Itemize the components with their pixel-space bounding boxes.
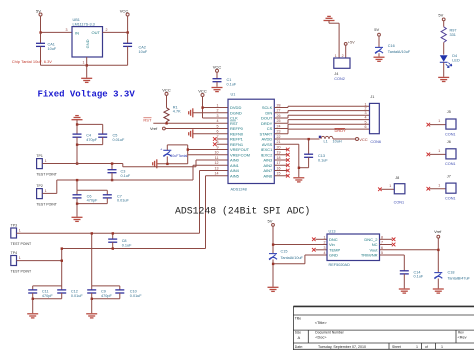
no-connect X AIN7 xyxy=(274,169,289,173)
U13 left pin names xyxy=(329,237,340,258)
wire C9 feed drop xyxy=(91,233,93,286)
capacitor C2 tantal xyxy=(160,145,188,164)
svg-text:AIN7: AIN7 xyxy=(263,168,273,173)
U1 right pin numbers xyxy=(277,103,281,175)
svg-text:VCC: VCC xyxy=(359,137,368,142)
svg-text:Vref: Vref xyxy=(434,229,442,234)
svg-text:IEXC1: IEXC1 xyxy=(261,147,273,152)
svg-text:LED: LED xyxy=(452,59,460,63)
wire ground rail xyxy=(41,64,128,66)
svg-text:Document Number: Document Number xyxy=(315,330,344,334)
svg-text:Title: Title xyxy=(295,316,301,320)
connector J6 CON1 xyxy=(427,140,457,166)
svg-text:5: 5 xyxy=(365,120,367,124)
svg-text:Rev: Rev xyxy=(458,330,464,334)
svg-text:17: 17 xyxy=(277,161,281,165)
wire VCC down xyxy=(127,16,129,32)
wire SCLK to J1 xyxy=(274,106,369,107)
power VCC (DVDD/CLK) xyxy=(198,89,207,97)
svg-text:470pF: 470pF xyxy=(101,294,112,298)
wire regulator GND pin xyxy=(86,57,88,65)
svg-text:5V: 5V xyxy=(268,218,273,223)
svg-text:0.1uF: 0.1uF xyxy=(121,174,131,178)
svg-text:C11: C11 xyxy=(42,290,49,294)
svg-text:1: 1 xyxy=(19,228,21,232)
svg-text:0.1uF: 0.1uF xyxy=(122,244,132,248)
svg-text:2: 2 xyxy=(365,107,367,111)
svg-text:4: 4 xyxy=(324,251,326,255)
capacitor C18 tantal xyxy=(434,270,470,288)
svg-text:TEST POINT: TEST POINT xyxy=(36,172,57,176)
svg-text:331: 331 xyxy=(450,33,456,37)
wire REFN0 xyxy=(193,133,228,135)
svg-text:1: 1 xyxy=(324,236,326,240)
svg-text:TantalA/10uF: TantalA/10uF xyxy=(388,50,411,54)
svg-text:470pF: 470pF xyxy=(86,138,97,142)
wire C4/C5 bottom rail xyxy=(77,144,103,146)
svg-text:AIN2: AIN2 xyxy=(263,163,273,168)
wire Vref down xyxy=(437,238,439,272)
svg-text:24: 24 xyxy=(277,124,281,128)
power VCC (C1 decoupling) xyxy=(213,65,222,73)
wire OUT rail xyxy=(103,31,128,33)
svg-text:Size: Size xyxy=(295,330,301,334)
svg-text:DRDY: DRDY xyxy=(261,121,273,126)
svg-text:NC: NC xyxy=(372,242,378,247)
svg-text:<Title>: <Title> xyxy=(315,320,328,325)
svg-text:0.1uF: 0.1uF xyxy=(318,158,328,162)
junction TP4 riser xyxy=(61,260,63,262)
wire C11/C12 top rail xyxy=(33,285,62,287)
capacitor CA1 xyxy=(36,32,57,65)
svg-text:DOUT: DOUT xyxy=(261,116,273,121)
svg-text:AIN5: AIN5 xyxy=(230,173,240,178)
wire VCC vertical to CLK xyxy=(202,97,204,119)
svg-text:8: 8 xyxy=(217,140,219,144)
svg-text:4: 4 xyxy=(217,119,219,123)
svg-text:25: 25 xyxy=(277,119,281,123)
svg-text:27: 27 xyxy=(277,109,281,113)
no-connect X TEMP xyxy=(312,248,327,252)
svg-text:C1: C1 xyxy=(227,78,232,82)
svg-text:18: 18 xyxy=(277,156,281,160)
capacitor C16 tantal xyxy=(375,36,411,57)
ground (earth above J4) xyxy=(324,16,335,23)
ground (C14) xyxy=(399,289,410,293)
svg-text:470pF: 470pF xyxy=(42,294,53,298)
svg-text:RST: RST xyxy=(230,121,239,126)
power Vref xyxy=(434,229,442,238)
svg-text:3: 3 xyxy=(217,114,219,118)
svg-text:Fixed Voltage 3.3V: Fixed Voltage 3.3V xyxy=(38,90,136,100)
svg-text:0.01uF: 0.01uF xyxy=(71,294,84,298)
capacitor C11 470pF xyxy=(28,286,53,299)
wire U13 GND pin xyxy=(273,255,327,264)
svg-text:3: 3 xyxy=(365,111,367,115)
svg-text:C5: C5 xyxy=(113,134,118,138)
svg-text:C14: C14 xyxy=(414,270,421,274)
svg-text:13: 13 xyxy=(215,166,219,170)
net label RST xyxy=(143,118,152,123)
capacitor C8 0.1uF xyxy=(108,233,132,248)
svg-text:J8: J8 xyxy=(395,176,399,180)
wire C4 drop to TP1 line xyxy=(76,145,78,164)
svg-text:3: 3 xyxy=(66,28,68,32)
U13 left pin numbers xyxy=(324,236,326,256)
svg-text:TP4: TP4 xyxy=(11,251,17,255)
svg-text:TP2: TP2 xyxy=(36,184,42,188)
U13 right pin names xyxy=(361,237,379,258)
no-connect X NC xyxy=(380,243,396,247)
svg-text:J5: J5 xyxy=(447,110,451,114)
junction C9 feed xyxy=(91,232,93,234)
svg-text:ADS1248: ADS1248 xyxy=(231,188,247,192)
svg-text:VCC: VCC xyxy=(120,8,129,13)
connector J5 CON1 xyxy=(427,110,457,136)
U1 left pin numbers xyxy=(215,103,219,175)
svg-text:10uH: 10uH xyxy=(333,140,342,144)
svg-text:22: 22 xyxy=(277,135,281,139)
wire C4/C5 top rail xyxy=(77,123,103,125)
svg-text:RST: RST xyxy=(143,118,152,123)
svg-text:CON6: CON6 xyxy=(370,140,381,144)
junction VREFOUT xyxy=(187,148,189,150)
svg-text:TEST POINT: TEST POINT xyxy=(11,242,32,246)
capacitor C7 0.01uF xyxy=(103,190,130,203)
wire C2 ground segment xyxy=(157,163,188,165)
junction C3 bottom xyxy=(111,179,113,181)
net label DRDY xyxy=(335,128,347,133)
svg-text:1: 1 xyxy=(438,119,440,123)
capacitor C3 0.1uF xyxy=(108,164,131,181)
J1 pin numbers xyxy=(365,102,367,129)
junction C4 bottom xyxy=(76,144,78,146)
svg-text:VCC: VCC xyxy=(213,65,222,70)
capacitor CA2 xyxy=(123,32,148,65)
junction DVDD xyxy=(201,106,203,108)
svg-text:10uF: 10uF xyxy=(139,50,148,54)
svg-text:1: 1 xyxy=(335,54,337,58)
U1 left pin names xyxy=(230,105,250,178)
wire DOUT to J1 xyxy=(274,115,369,118)
svg-text:1: 1 xyxy=(438,149,440,153)
svg-text:U1: U1 xyxy=(231,93,236,97)
svg-text:1: 1 xyxy=(438,183,440,187)
junction C2 bottom xyxy=(166,163,168,165)
no-connect X DNC xyxy=(312,238,327,242)
test point TP4 xyxy=(11,251,32,273)
junction GND tap xyxy=(272,263,274,265)
wire J4 pin2 xyxy=(345,45,347,58)
connector J4 CON2 xyxy=(334,54,350,81)
wire CLK xyxy=(203,117,229,119)
wire DVDD branch xyxy=(203,107,229,109)
svg-text:AIN4: AIN4 xyxy=(230,168,240,173)
svg-text:10: 10 xyxy=(215,151,219,155)
capacitor C13 0.1uF xyxy=(304,139,328,168)
svg-text:REFP0: REFP0 xyxy=(230,126,244,131)
svg-text:0.1uF: 0.1uF xyxy=(227,83,237,87)
ground (REFN0 sideways) xyxy=(189,129,193,138)
svg-text:C16: C16 xyxy=(388,44,395,48)
svg-text:Vref: Vref xyxy=(150,126,158,131)
ground (earth above C4/C5) xyxy=(72,116,83,125)
svg-text:1: 1 xyxy=(45,189,47,193)
svg-text:+5V: +5V xyxy=(348,41,355,45)
junction C9 bottom xyxy=(91,298,93,300)
svg-text:21: 21 xyxy=(277,140,281,144)
svg-text:C12: C12 xyxy=(71,290,78,294)
power VCC (regulator output) xyxy=(120,8,129,16)
wire J4 pin1 to ground xyxy=(329,23,339,58)
svg-text:12: 12 xyxy=(215,161,219,165)
wire IN rail xyxy=(41,31,73,33)
LED D4 xyxy=(440,54,460,77)
svg-text:START: START xyxy=(260,131,273,136)
svg-text:<Doc>: <Doc> xyxy=(315,336,327,340)
svg-text:REFP1: REFP1 xyxy=(230,137,244,142)
svg-text:TEST POINT: TEST POINT xyxy=(11,269,32,273)
svg-text:23: 23 xyxy=(277,130,281,134)
svg-text:TRIM/NR: TRIM/NR xyxy=(361,253,378,258)
svg-text:CON1: CON1 xyxy=(445,197,456,201)
wire REFP0 xyxy=(165,128,228,130)
svg-text:26: 26 xyxy=(277,114,281,118)
svg-text:OUT: OUT xyxy=(92,30,101,35)
no-connect X REFN1 xyxy=(213,142,228,146)
wire C9/C10 bottom rail xyxy=(92,298,120,300)
wire L1 to VCC xyxy=(333,138,356,140)
power VCC (R1 pullup) xyxy=(162,88,171,96)
svg-text:0.1uF: 0.1uF xyxy=(414,275,424,279)
wire TP4/AIN5 xyxy=(17,176,229,286)
svg-text:TantalA/10uF: TantalA/10uF xyxy=(281,256,304,260)
wire AVDD xyxy=(274,138,319,140)
title block texts xyxy=(295,316,467,349)
wire 5V rail down xyxy=(272,226,274,253)
svg-text:2: 2 xyxy=(106,28,108,32)
title block xyxy=(293,306,474,350)
junction VCC/CA2 xyxy=(127,31,129,33)
svg-text:0.01uF: 0.01uF xyxy=(117,199,130,203)
svg-text:CS: CS xyxy=(267,126,273,131)
junction C13/AVDD xyxy=(308,138,310,140)
svg-text:C7: C7 xyxy=(117,194,122,198)
capacitor C4 470pF xyxy=(73,124,98,144)
wire DGND xyxy=(193,112,228,114)
wire VREFCOM xyxy=(188,154,228,156)
test point TP2 xyxy=(36,184,57,206)
inductor L1 10uH xyxy=(319,136,342,144)
junction Vin tap xyxy=(272,243,274,245)
ground (DGND sideways) xyxy=(189,108,193,117)
svg-text:CLK: CLK xyxy=(230,116,238,121)
svg-text:28: 28 xyxy=(277,103,281,107)
svg-text:TP1: TP1 xyxy=(36,154,42,158)
power +5V (J4) xyxy=(344,41,355,46)
svg-text:2: 2 xyxy=(324,241,326,245)
capacitor C12 0.01uF xyxy=(57,286,83,299)
svg-text:TEST POINT: TEST POINT xyxy=(36,202,57,206)
svg-text:C6: C6 xyxy=(87,194,92,198)
resistor R1 4.7K xyxy=(164,95,181,123)
wire TRIM/NR to C14 xyxy=(380,255,405,271)
svg-text:9: 9 xyxy=(217,145,219,149)
svg-text:LM1117S-3.3: LM1117S-3.3 xyxy=(73,23,95,27)
svg-text:GND: GND xyxy=(329,253,338,258)
capacitor C14 0.1uF xyxy=(400,270,424,288)
wire VREFOUT loop xyxy=(167,145,228,164)
junction C8 top xyxy=(112,232,114,234)
svg-text:TP3: TP3 xyxy=(11,223,17,227)
junction C4 top xyxy=(76,123,78,125)
power 5V (C16) xyxy=(374,27,380,36)
U13 right pin numbers xyxy=(381,236,383,256)
svg-text:C9: C9 xyxy=(101,290,106,294)
no-connect X DNC_2 xyxy=(380,238,396,242)
connector J8 CON1 xyxy=(378,176,405,205)
IC U1 ADS1248 xyxy=(228,93,274,192)
svg-text:CON1: CON1 xyxy=(394,201,405,205)
svg-text:14: 14 xyxy=(215,172,219,176)
svg-text:0.01uF: 0.01uF xyxy=(130,294,143,298)
svg-text:CON2: CON2 xyxy=(334,77,345,81)
junction Vout/Vref xyxy=(437,249,439,251)
no-connect X AIN2 xyxy=(274,163,289,167)
svg-text:1: 1 xyxy=(416,345,418,349)
capacitor C10 0.01uF xyxy=(115,286,142,299)
wire DRDY to J1 xyxy=(274,120,369,124)
svg-text:2: 2 xyxy=(217,109,219,113)
svg-text:AVSS: AVSS xyxy=(262,142,273,147)
svg-text:Tuesday, September 07, 2010: Tuesday, September 07, 2010 xyxy=(318,345,366,349)
svg-text:Sheet: Sheet xyxy=(392,345,401,349)
svg-text:10uF: 10uF xyxy=(48,47,57,51)
ground (C18) xyxy=(433,289,444,293)
svg-text:<Rev: <Rev xyxy=(458,336,467,340)
svg-text:470pF: 470pF xyxy=(87,199,98,203)
ground (AVSS) xyxy=(293,178,304,182)
svg-text:20: 20 xyxy=(277,145,281,149)
wire AVSS down xyxy=(274,144,299,177)
wire C11/C12 bottom rail xyxy=(33,298,62,300)
junction R1/RST xyxy=(165,122,167,124)
junction C8 bottom xyxy=(112,247,114,249)
ground (C11/C12) xyxy=(27,299,38,318)
svg-text:1: 1 xyxy=(217,103,219,107)
wire TP3/AIN4 xyxy=(17,171,229,234)
wire C13 to AVSS ground xyxy=(299,167,309,169)
connector J1 CON6 xyxy=(370,95,381,144)
wire TP2/AIN1 xyxy=(42,165,228,193)
svg-text:C18: C18 xyxy=(448,270,455,274)
svg-text:CA2: CA2 xyxy=(139,45,146,49)
svg-text:J7: J7 xyxy=(447,175,451,179)
svg-text:AIN6: AIN6 xyxy=(263,173,273,178)
ground (LED) xyxy=(438,77,449,81)
wire Vout to Vref xyxy=(380,249,439,251)
wire TP1/AIN0 xyxy=(42,160,228,167)
svg-text:C15: C15 xyxy=(281,250,288,254)
IC U13 REF5020AD xyxy=(327,229,380,266)
wire DIN to J1 xyxy=(274,111,369,113)
svg-text:REFN1: REFN1 xyxy=(230,142,244,147)
wire C9/C10 top rail xyxy=(92,285,120,287)
junction 5V/CA1 xyxy=(39,31,41,33)
svg-text:5: 5 xyxy=(217,124,219,128)
ground (C16) xyxy=(374,57,385,61)
junction C11 bottom xyxy=(32,298,34,300)
svg-text:1: 1 xyxy=(389,184,391,188)
capacitor C15 tantal xyxy=(269,250,304,287)
svg-text:CON1: CON1 xyxy=(445,162,456,166)
svg-text:L1: L1 xyxy=(324,140,328,144)
svg-text:C3: C3 xyxy=(121,169,126,173)
svg-text:D4: D4 xyxy=(452,54,457,58)
no-connect X IEXC2 xyxy=(274,153,289,157)
wire START to J1 xyxy=(274,129,369,134)
svg-text:VREFOUT: VREFOUT xyxy=(230,147,250,152)
power VCC (AVDD) xyxy=(356,137,368,142)
junction on TP1 line xyxy=(76,162,78,164)
wire RST xyxy=(153,122,228,124)
svg-text:VCC: VCC xyxy=(162,88,171,93)
svg-text:11: 11 xyxy=(215,156,219,160)
regulator UB1 LM1117S-3.3 xyxy=(66,18,108,65)
svg-text:AIN1: AIN1 xyxy=(230,163,240,168)
capacitor C5 0.01uF xyxy=(98,124,125,144)
svg-text:DIN: DIN xyxy=(265,110,272,115)
svg-text:AIN0: AIN0 xyxy=(230,158,240,163)
svg-text:6: 6 xyxy=(217,130,219,134)
wire C6/C7 bottom rail xyxy=(77,203,107,205)
svg-text:CON1: CON1 xyxy=(445,132,456,136)
svg-text:5V: 5V xyxy=(374,27,379,32)
svg-text:DVDD: DVDD xyxy=(230,105,241,110)
capacitor C1 xyxy=(213,72,237,87)
wire C6/C7 top rail xyxy=(77,189,107,191)
svg-text:AIN3: AIN3 xyxy=(263,158,273,163)
svg-text:IN: IN xyxy=(75,30,79,35)
svg-text:SCLK: SCLK xyxy=(262,105,273,110)
U1 right pin names xyxy=(260,105,274,178)
svg-text:AVDD: AVDD xyxy=(261,137,272,142)
wire 5V to IN rail xyxy=(40,16,42,32)
junction C13 ground xyxy=(298,167,300,169)
ground (regulator) xyxy=(81,65,92,82)
svg-text:J6: J6 xyxy=(447,140,451,144)
test point TP1 xyxy=(36,154,57,176)
svg-text:J1: J1 xyxy=(370,95,374,99)
svg-text:REF5020AD: REF5020AD xyxy=(329,263,351,267)
ground (C6/C7) xyxy=(72,204,83,222)
svg-text:10uFTantal: 10uFTantal xyxy=(171,154,188,158)
ground (C1) xyxy=(212,88,223,92)
off-page Vref (REFP0) xyxy=(150,126,165,131)
power 5V (LED) xyxy=(438,12,445,20)
svg-text:GND: GND xyxy=(85,39,90,48)
svg-text:TantalB/47uF: TantalB/47uF xyxy=(448,276,471,280)
svg-text:C13: C13 xyxy=(318,154,325,158)
svg-text:Vin: Vin xyxy=(329,242,335,247)
svg-text:CA1: CA1 xyxy=(48,43,55,47)
junction GND rail xyxy=(86,64,88,66)
svg-text:1: 1 xyxy=(19,256,21,260)
svg-text:1: 1 xyxy=(45,159,47,163)
no-connect X REFP1 xyxy=(213,137,228,141)
svg-text:C8: C8 xyxy=(122,239,127,243)
no-connect X IEXC1 xyxy=(274,148,289,152)
